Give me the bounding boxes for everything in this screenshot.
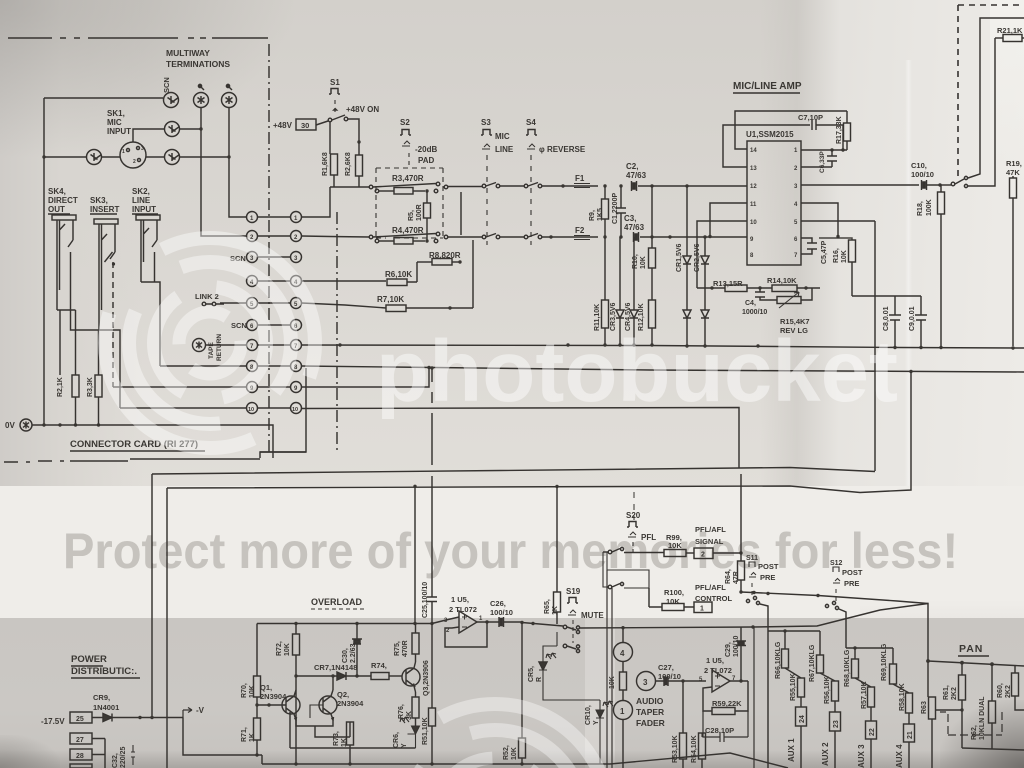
wire card right dashed edge — [268, 44, 270, 456]
wire S11 drop to aux rail — [760, 604, 768, 631]
wire box L2 — [167, 372, 911, 493]
wire CR6 bottom row — [290, 712, 416, 748]
wire pin13 loop — [723, 125, 810, 167]
wire multiway boundary dash-dot — [336, 212, 338, 452]
wire -V drop — [183, 718, 262, 765]
switch S2 bypass lower — [369, 235, 373, 239]
wire pin10 — [697, 221, 747, 288]
wire SK4 to row10 — [71, 300, 121, 408]
wire row B left — [302, 236, 370, 237]
wire Q2 base — [310, 705, 323, 718]
wire R8 drop to C25 — [431, 368, 433, 597]
wire row A middle — [448, 186, 482, 188]
wire opamp out to mute — [522, 623, 563, 627]
wire Q1 base — [257, 704, 286, 706]
wire bus B1 row7 — [302, 345, 1024, 348]
connector SK2 jack — [136, 215, 160, 220]
wire pin2 — [801, 166, 832, 168]
wire pan rail — [928, 661, 1024, 666]
switch S19 contacts — [563, 625, 567, 629]
wire SCN feed — [44, 97, 163, 99]
aux3 send box 22 — [866, 721, 877, 739]
wire pin4 — [801, 203, 838, 236]
wire pin11 — [710, 203, 747, 236]
dashed box top right — [958, 5, 1024, 178]
node multiway circle D — [165, 122, 180, 137]
wire box L1 — [152, 468, 875, 475]
terminal box 29 partial — [70, 764, 92, 768]
switch S20 — [633, 492, 635, 520]
wire Q2 collector to CR7 — [332, 676, 334, 690]
wire pin1 — [801, 149, 847, 151]
wire row8 drop — [260, 368, 306, 458]
wire aux rail 2 — [846, 647, 893, 649]
switch S4 contacts row B — [524, 235, 528, 239]
wire pin3 row — [801, 184, 919, 186]
lower gray zone — [0, 618, 1024, 768]
aux4 send box 21 — [904, 724, 915, 742]
wire pad column drop — [414, 486, 416, 623]
wire pin5 drop — [874, 221, 876, 471]
connector SK1 XLR — [120, 142, 146, 168]
wire to R19 — [968, 38, 995, 186]
switch S2 bypass upper — [369, 185, 373, 189]
wire S12 drop to aux rail — [839, 609, 846, 648]
connector card circles right column — [291, 212, 302, 414]
wire mute column drop — [556, 487, 558, 593]
connector card circles left column — [247, 212, 258, 414]
node multiway circle C — [222, 93, 237, 108]
wire row A to IC pin12 — [638, 185, 747, 187]
resistor R4 — [375, 239, 379, 243]
node circle E left — [87, 150, 102, 165]
wires between circle pairs — [258, 217, 291, 408]
switch S3 contacts row A — [482, 184, 486, 188]
wire S1 to R2 top — [348, 119, 359, 142]
aux2 send box 23 — [830, 712, 841, 731]
switch S3 contacts row B — [482, 235, 486, 239]
terminal box 25 — [70, 712, 92, 723]
wire mic pin3 to circle row2 — [133, 129, 164, 142]
aux1 send box 24 — [796, 707, 807, 726]
wire S20 loop — [603, 552, 649, 588]
pad dashed box — [376, 168, 443, 238]
photobucket watermark word — [376, 322, 898, 422]
terminal box 28 — [70, 749, 92, 760]
switch S4 contacts row A — [524, 184, 528, 188]
wire row5 to R7 — [302, 303, 387, 308]
wire box L1 left edge — [151, 474, 153, 717]
node 0V terminal — [20, 419, 32, 431]
wire row B to IC pin9 — [640, 236, 747, 238]
wire pan bottom rail — [962, 748, 1024, 750]
node fader circle 1 — [614, 701, 633, 720]
wire PFL bus to pan corner — [741, 592, 928, 604]
wire row4 to R6 — [302, 280, 387, 282]
wire row A to F1 — [542, 185, 598, 187]
wire long vertical pair — [607, 570, 612, 768]
wire signal box to R64 net — [713, 552, 741, 554]
terminal box 27 — [70, 733, 92, 744]
resistor R3 — [375, 189, 379, 193]
wire top card outline — [8, 37, 268, 39]
wire bus B2 row8 — [302, 366, 1024, 372]
connector tape return — [193, 339, 206, 352]
wire opamp2 output join C29 — [730, 680, 748, 682]
wire overload top rail — [257, 623, 432, 625]
wire box L2 left edge — [166, 488, 168, 768]
wires into left circles — [113, 303, 247, 408]
switch S20 contacts lower — [608, 585, 612, 589]
wire row B to F2 — [542, 236, 598, 238]
gray band watermark text — [63, 522, 958, 580]
wire mute line right — [580, 604, 928, 662]
wire S20 to R99 — [624, 552, 664, 554]
wire SK2 to row8 — [141, 282, 160, 366]
wire R63 wiper to R62 — [936, 709, 963, 711]
wire F to C vertical — [180, 107, 246, 217]
wire row A to S4 — [500, 185, 524, 187]
wire row10 net — [302, 408, 740, 469]
wire aux left vertical — [767, 631, 769, 768]
dashed gang line — [940, 712, 1002, 735]
wire pin14 loop — [735, 111, 847, 149]
wire row9 net — [302, 368, 430, 388]
connector card bottom dash-dot — [4, 452, 306, 462]
node multiway circle A — [164, 93, 179, 108]
wire opamp input — [432, 617, 459, 624]
paper background shading — [0, 0, 1024, 490]
wire row A left — [330, 186, 369, 188]
connector SK4 jack — [52, 215, 76, 220]
arrow -V — [183, 708, 192, 718]
light watermark band — [0, 486, 1024, 620]
switch S20 contacts upper — [608, 550, 612, 554]
node fader circle 3 wiper — [637, 672, 656, 691]
node multiway circle F — [165, 150, 180, 165]
wire mic pin2 row — [44, 156, 164, 158]
switch S1 contacts — [316, 121, 328, 125]
node multiway circle B — [194, 93, 209, 108]
wire opamp feedback loop — [445, 622, 487, 647]
wire 0V bus — [32, 425, 273, 458]
wire bottom bus — [262, 753, 788, 768]
switch gain contacts — [951, 182, 955, 186]
wire drop from mute junction — [753, 627, 755, 768]
wire row1 to row A — [302, 187, 331, 217]
node fader circle 4 — [614, 643, 633, 662]
wire pin5 — [801, 220, 875, 222]
wire C10 to switch — [940, 184, 951, 186]
connector SK3 jack — [94, 219, 118, 224]
link symbol — [202, 302, 206, 306]
junction at 44,157 — [42, 155, 45, 158]
wire to R21 loop — [968, 18, 1024, 178]
wire D to B vertical — [180, 107, 246, 236]
wire boxes to C32 — [92, 739, 105, 768]
wire row B middle — [448, 236, 524, 238]
wire left vertical 0V drop — [43, 98, 45, 425]
wire emitters join — [296, 720, 350, 737]
wire aux rail 1 — [768, 630, 820, 632]
wire tape return to row7 — [206, 344, 247, 346]
